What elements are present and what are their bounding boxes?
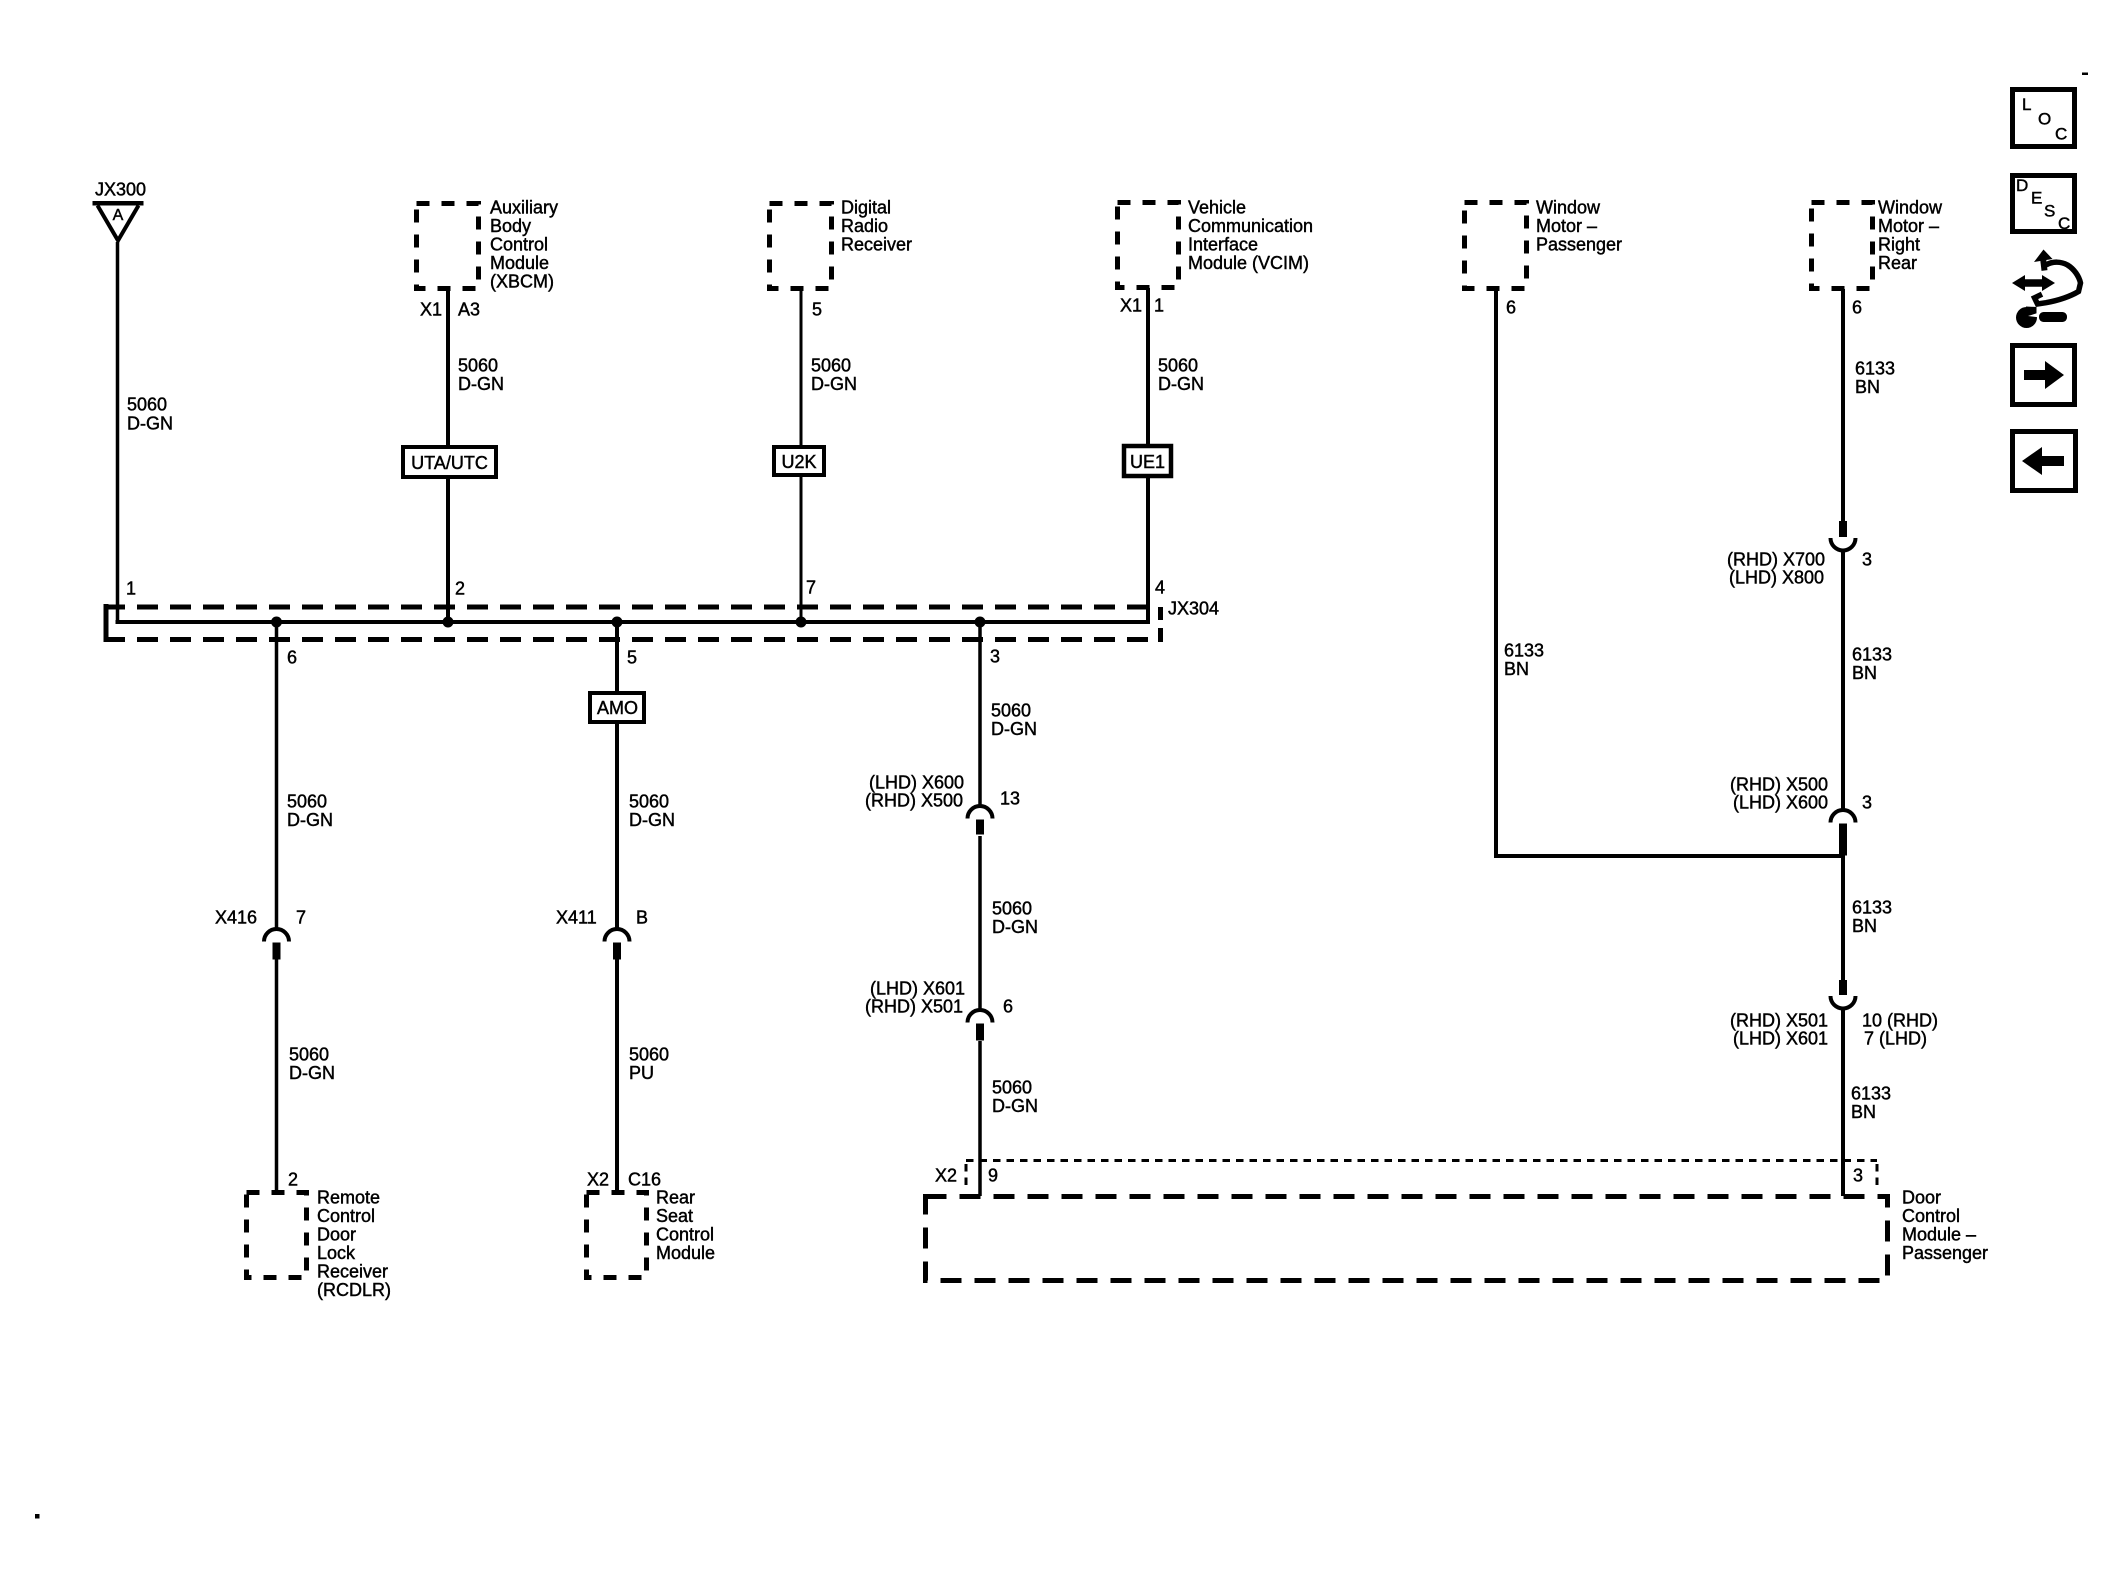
svg-text:3: 3 (1862, 550, 1872, 570)
svg-text:Seat: Seat (656, 1206, 693, 1226)
svg-text:Window: Window (1536, 198, 1601, 218)
svg-text:5060: 5060 (458, 356, 498, 376)
svg-text:7 (LHD): 7 (LHD) (1864, 1029, 1927, 1049)
stray mark bottom left (35, 1514, 40, 1519)
svg-text:6: 6 (1003, 997, 1013, 1017)
svg-text:5: 5 (627, 648, 637, 668)
connector X500/X600 inline symbol (1831, 810, 1856, 823)
svg-text:Door: Door (1902, 1188, 1941, 1208)
svg-text:A3: A3 (458, 300, 480, 320)
splice pack JX304 left bracket (104, 604, 109, 642)
svg-text:D-GN: D-GN (991, 719, 1037, 739)
svg-text:5060: 5060 (992, 899, 1032, 919)
svg-text:Rear: Rear (1878, 253, 1917, 273)
svg-text:Control: Control (490, 235, 548, 255)
svg-text:AMO: AMO (597, 698, 638, 718)
wire 5060 D-GN from X600 to X601 (978, 836, 982, 1012)
component UE1 option box (1124, 446, 1171, 476)
svg-text:Radio: Radio (841, 216, 888, 236)
svg-text:6: 6 (287, 648, 297, 668)
connector X600/X500 inline symbol (968, 806, 993, 819)
svg-text:(RHD) X700: (RHD) X700 (1727, 550, 1825, 570)
svg-text:2: 2 (288, 1170, 298, 1190)
wire 6133 BN from right rear motor to X700 (1841, 289, 1845, 522)
svg-text:E: E (2031, 189, 2042, 208)
svg-text:B: B (636, 908, 648, 928)
svg-text:Control: Control (656, 1225, 714, 1245)
connector X601/X501 inline symbol (968, 1010, 993, 1023)
svg-text:Door: Door (317, 1225, 356, 1245)
connector X700/X800 inline symbol (1839, 521, 1847, 537)
svg-text:(RHD) X501: (RHD) X501 (865, 997, 963, 1017)
module RCDLR dashed box (247, 1193, 307, 1278)
svg-text:D-GN: D-GN (811, 374, 857, 394)
svg-text:Digital: Digital (841, 198, 891, 218)
svg-text:Passenger: Passenger (1902, 1243, 1988, 1263)
svg-text:Interface: Interface (1188, 235, 1258, 255)
component UTA/UTC option box (403, 447, 496, 477)
svg-text:Motor –: Motor – (1536, 216, 1597, 236)
svg-text:(RHD) X501: (RHD) X501 (1730, 1011, 1828, 1031)
svg-text:3: 3 (1853, 1166, 1863, 1186)
module XBCM dashed box (417, 204, 479, 289)
module VCIM dashed box (1118, 203, 1179, 288)
module Door Control Module Passenger dashed box (926, 1197, 1888, 1281)
wire 5060 D-GN from JX304 to X600 (978, 620, 982, 808)
svg-text:6133: 6133 (1855, 359, 1895, 379)
svg-text:Passenger: Passenger (1536, 235, 1622, 255)
wire 6133 BN horizontal to right rear branch (1494, 854, 1843, 858)
svg-text:Control: Control (1902, 1206, 1960, 1226)
svg-text:5060: 5060 (287, 792, 327, 812)
svg-text:5060: 5060 (991, 701, 1031, 721)
svg-text:1: 1 (1154, 296, 1164, 316)
icon forward arrow box (2013, 346, 2075, 405)
module Rear Seat Control Module dashed box (587, 1193, 647, 1278)
svg-text:Communication: Communication (1188, 216, 1313, 236)
icon back arrow box (2013, 432, 2076, 491)
svg-text:1: 1 (126, 579, 136, 599)
svg-text:JX300: JX300 (95, 180, 146, 200)
svg-text:UE1: UE1 (1130, 452, 1165, 472)
svg-text:9: 9 (988, 1166, 998, 1186)
wire from JX304 to AMO (615, 620, 619, 693)
wire 6133 BN from X501 to DCM (1841, 1009, 1845, 1196)
module DCM X2 connector thin dashed line (966, 1159, 1877, 1162)
stray mark top right (2082, 73, 2088, 76)
svg-text:D-GN: D-GN (992, 917, 1038, 937)
svg-text:C16: C16 (628, 1170, 661, 1190)
svg-text:BN: BN (1852, 916, 1877, 936)
svg-text:X1: X1 (1120, 296, 1142, 316)
icon DESC box (2013, 176, 2075, 232)
wire from U2K to JX304 (800, 475, 803, 624)
icon harness swoosh outline (2043, 256, 2045, 271)
svg-text:D-GN: D-GN (287, 810, 333, 830)
node JX300 triangle symbol (93, 203, 144, 240)
svg-text:BN: BN (1855, 377, 1880, 397)
svg-text:(RCDLR): (RCDLR) (317, 1280, 391, 1300)
svg-text:Module: Module (656, 1243, 715, 1263)
wire 5060 D-GN from radio to U2K (800, 289, 803, 447)
svg-text:PU: PU (629, 1063, 654, 1083)
svg-text:10 (RHD): 10 (RHD) (1862, 1011, 1938, 1031)
svg-text:Vehicle: Vehicle (1188, 198, 1246, 218)
svg-text:X416: X416 (215, 908, 257, 928)
svg-text:A: A (113, 207, 124, 224)
component U2K option box (774, 447, 824, 475)
svg-text:Module: Module (490, 253, 549, 273)
connector X416 inline symbol (264, 929, 289, 942)
svg-text:D-GN: D-GN (458, 374, 504, 394)
svg-text:Receiver: Receiver (841, 235, 912, 255)
wire 5060 D-GN from X601 to DCM (978, 1041, 982, 1196)
svg-text:Right: Right (1878, 235, 1920, 255)
svg-text:JX304: JX304 (1168, 599, 1219, 619)
svg-text:(LHD) X601: (LHD) X601 (870, 979, 965, 999)
svg-text:3: 3 (1862, 793, 1872, 813)
wire 5060 PU from X411 to Rear Seat Control Module (615, 959, 619, 1192)
splice pack JX304 right bracket top stub (1158, 607, 1163, 620)
svg-text:D-GN: D-GN (629, 810, 675, 830)
wire JX304 internal bus (116, 620, 1151, 624)
svg-text:3: 3 (990, 647, 1000, 667)
svg-text:7: 7 (806, 578, 816, 598)
svg-text:X2: X2 (935, 1166, 957, 1186)
svg-text:(XBCM): (XBCM) (490, 272, 554, 292)
svg-text:(LHD) X600: (LHD) X600 (869, 773, 964, 793)
svg-text:5060: 5060 (992, 1078, 1032, 1098)
wire 5060 D-GN from AMO to X411 (615, 720, 619, 929)
svg-text:Module (VCIM): Module (VCIM) (1188, 253, 1309, 273)
svg-text:5060: 5060 (629, 792, 669, 812)
wire 6133 BN from passenger motor down (1494, 289, 1498, 858)
component AMO option box (590, 693, 644, 722)
svg-text:X2: X2 (587, 1170, 609, 1190)
svg-text:X411: X411 (556, 908, 597, 928)
module Window Motor Right Rear dashed box (1812, 203, 1873, 289)
svg-text:Remote: Remote (317, 1188, 380, 1208)
svg-text:L: L (2022, 95, 2031, 114)
svg-text:Control: Control (317, 1206, 375, 1226)
svg-text:S: S (2044, 202, 2055, 221)
svg-text:4: 4 (1155, 578, 1165, 598)
svg-text:13: 13 (1000, 789, 1020, 809)
svg-text:BN: BN (1852, 663, 1877, 683)
svg-text:7: 7 (296, 908, 306, 928)
junction dot at pin 3 drop (975, 617, 986, 628)
icon LOC box (2013, 90, 2075, 147)
svg-text:5060: 5060 (629, 1045, 669, 1065)
svg-text:6133: 6133 (1852, 645, 1892, 665)
splice pack JX304 right bracket bottom stub (1158, 628, 1163, 642)
wire 5060 D-GN from X416 to RCDLR (275, 959, 279, 1192)
svg-text:(LHD) X800: (LHD) X800 (1729, 568, 1824, 588)
svg-text:D-GN: D-GN (127, 414, 173, 434)
svg-text:C: C (2055, 125, 2067, 144)
junction dot at pin 5 drop (612, 617, 623, 628)
svg-text:Auxiliary: Auxiliary (490, 198, 558, 218)
connector X501/X601 inline symbol (right) (1839, 980, 1847, 995)
svg-text:D: D (2016, 176, 2028, 195)
module DCM X2 connector left stub (965, 1164, 968, 1191)
wire 6133 BN from X700 to X500 (1841, 550, 1845, 812)
svg-text:X1: X1 (420, 300, 442, 320)
svg-text:5060: 5060 (811, 356, 851, 376)
icon harness double arrow (2012, 275, 2055, 291)
svg-text:Rear: Rear (656, 1188, 695, 1208)
wire 5060 D-GN from VCIM to UE1 (1146, 288, 1150, 446)
wire 5060 D-GN from XBCM to UTA/UTC (446, 289, 450, 447)
svg-text:BN: BN (1504, 659, 1529, 679)
svg-text:Module –: Module – (1902, 1225, 1976, 1245)
module Window Motor Passenger dashed box (1465, 203, 1527, 289)
splice pack JX304 dashed outline top (104, 605, 1160, 610)
svg-text:Body: Body (490, 216, 531, 236)
junction dot at pin 6 drop (271, 617, 282, 628)
svg-text:Receiver: Receiver (317, 1262, 388, 1282)
svg-text:5060: 5060 (127, 395, 167, 415)
svg-text:5060: 5060 (1158, 356, 1198, 376)
svg-text:(LHD) X600: (LHD) X600 (1733, 793, 1828, 813)
svg-text:6: 6 (1506, 298, 1516, 318)
svg-text:U2K: U2K (781, 452, 816, 472)
svg-text:Window: Window (1878, 198, 1943, 218)
wire 5060 D-GN from JX304 to X416 (275, 620, 279, 929)
svg-text:6133: 6133 (1852, 898, 1892, 918)
module DCM X2 connector right stub (1876, 1164, 1879, 1191)
connector X411 inline symbol (605, 929, 630, 942)
svg-text:6: 6 (1852, 298, 1862, 318)
wire 5060 D-GN from JX300 to splice pack JX304 (116, 242, 120, 624)
svg-text:6133: 6133 (1504, 641, 1544, 661)
svg-text:2: 2 (455, 579, 465, 599)
wire 6133 BN from X500 junction down (1841, 854, 1845, 982)
svg-text:D-GN: D-GN (289, 1063, 335, 1083)
splice pack JX304 dashed outline bottom (104, 637, 1160, 642)
svg-text:(LHD) X601: (LHD) X601 (1733, 1029, 1828, 1049)
svg-text:D-GN: D-GN (992, 1096, 1038, 1116)
svg-text:O: O (2038, 110, 2051, 129)
wire from UTA/UTC to JX304 (446, 477, 450, 624)
svg-text:BN: BN (1851, 1102, 1876, 1122)
module Digital Radio Receiver dashed box (770, 204, 832, 289)
svg-text:5060: 5060 (289, 1045, 329, 1065)
svg-text:Motor –: Motor – (1878, 216, 1939, 236)
svg-text:6133: 6133 (1851, 1084, 1891, 1104)
svg-text:UTA/UTC: UTA/UTC (411, 453, 488, 473)
svg-text:(RHD) X500: (RHD) X500 (865, 791, 963, 811)
svg-text:(RHD) X500: (RHD) X500 (1730, 775, 1828, 795)
svg-text:Lock: Lock (317, 1243, 356, 1263)
wire from UE1 to JX304 (1146, 474, 1150, 624)
svg-text:5: 5 (812, 300, 822, 320)
svg-text:D-GN: D-GN (1158, 374, 1204, 394)
junction dot at pin 7 (796, 617, 807, 628)
icon wrench (2016, 307, 2037, 328)
junction dot at pin 2 (443, 617, 454, 628)
svg-text:C: C (2058, 214, 2070, 233)
